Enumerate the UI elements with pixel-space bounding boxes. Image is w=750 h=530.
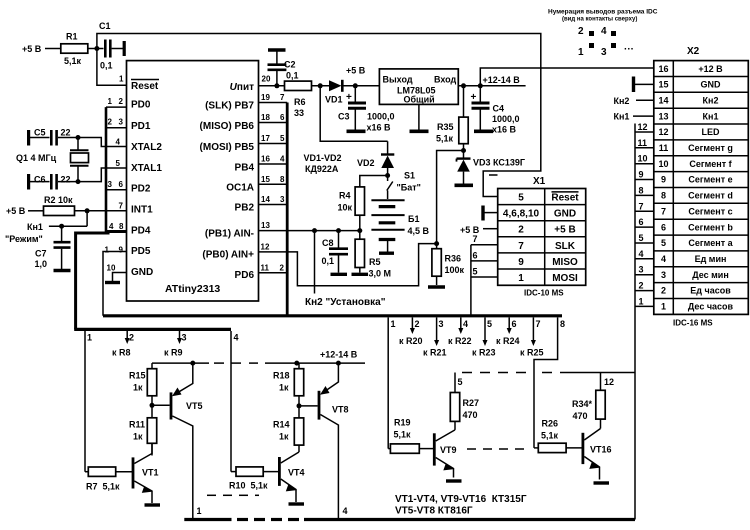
svg-text:4: 4 [109, 222, 114, 231]
svg-text:Reset: Reset [551, 193, 579, 204]
svg-text:X1: X1 [533, 176, 546, 187]
svg-text:1000,0: 1000,0 [367, 112, 395, 122]
svg-text:Reset: Reset [131, 81, 159, 92]
svg-text:10к: 10к [338, 203, 353, 213]
svg-text:"Бат": "Бат" [397, 183, 421, 193]
node XTAL1 junction [76, 179, 81, 184]
svg-text:4: 4 [116, 138, 121, 147]
node +5V (X1 row) [460, 225, 498, 235]
svg-text:R11: R11 [129, 420, 145, 430]
svg-text:C4: C4 [493, 104, 505, 114]
label VD1-VD2 type [304, 153, 342, 174]
ground (C4) [474, 130, 493, 134]
svg-text:+5 В: +5 В [554, 225, 575, 236]
svg-text:4: 4 [601, 26, 607, 37]
svg-text:(MISO) PB6: (MISO) PB6 [200, 121, 255, 132]
node VT8 base junction [297, 403, 302, 408]
node Kn2 junction [312, 228, 317, 233]
svg-text:Вход: Вход [434, 75, 457, 85]
svg-text:12: 12 [638, 122, 648, 132]
svg-text:КД922А: КД922А [305, 164, 339, 174]
resistor R27 [450, 393, 479, 430]
svg-text:(PB0) AIN+: (PB0) AIN+ [202, 250, 254, 261]
svg-text:8: 8 [119, 222, 124, 231]
svg-text:5,1к: 5,1к [541, 431, 559, 441]
svg-text:6: 6 [661, 222, 666, 232]
svg-text:9: 9 [661, 175, 666, 185]
svg-text:22: 22 [61, 128, 71, 138]
resistor R1 [61, 32, 97, 67]
svg-text:Uпит: Uпит [230, 82, 254, 93]
capacitor C6 [29, 174, 78, 190]
node VD3 junction [461, 148, 466, 153]
svg-text:2: 2 [661, 286, 666, 296]
svg-text:12: 12 [604, 377, 614, 387]
wire dashes between VT9 and VT16 cells [467, 448, 524, 450]
svg-text:11: 11 [659, 143, 669, 153]
ground (VT16) [594, 481, 610, 484]
label transistor types [395, 494, 527, 517]
svg-text:1к: 1к [279, 383, 289, 393]
svg-text:Дес часов: Дес часов [688, 302, 734, 312]
regulator LM78L05 [379, 69, 458, 130]
svg-text:5,1к: 5,1к [436, 134, 454, 144]
svg-text:GND: GND [554, 209, 576, 220]
svg-text:PD0: PD0 [131, 100, 151, 111]
svg-text:5: 5 [280, 134, 285, 143]
svg-text:8: 8 [639, 185, 644, 195]
svg-text:R27: R27 [463, 398, 480, 408]
svg-text:1к: 1к [133, 432, 143, 442]
svg-text:VD3 КС139Г: VD3 КС139Г [473, 158, 525, 168]
svg-text:VT16: VT16 [590, 445, 612, 455]
svg-text:9: 9 [119, 246, 124, 255]
svg-text:3: 3 [119, 118, 124, 127]
svg-text:4: 4 [463, 319, 468, 329]
capacitor C7 [35, 226, 71, 269]
svg-text:7: 7 [639, 201, 644, 211]
svg-text:20: 20 [262, 75, 271, 84]
svg-text:9: 9 [639, 170, 644, 180]
svg-text:VT5-VT8 КТ816Г: VT5-VT8 КТ816Г [395, 506, 473, 517]
svg-text:+5 В: +5 В [346, 66, 366, 76]
crystal Q1 [16, 138, 89, 182]
svg-text:C6: C6 [34, 175, 46, 185]
node C7 junction [59, 224, 64, 229]
ground (C8) [331, 273, 348, 276]
label IDC numbering note [548, 9, 658, 59]
svg-text:SLK: SLK [555, 241, 576, 252]
capacitor C5 [29, 128, 78, 146]
diode VD2 [357, 141, 394, 175]
svg-text:GND: GND [131, 267, 153, 278]
svg-text:15: 15 [658, 80, 668, 90]
connector X2 [654, 46, 749, 328]
ground (R36) [428, 285, 445, 289]
transistor VT5 (PNP) [152, 363, 203, 519]
svg-text:7: 7 [536, 319, 541, 329]
svg-text:1: 1 [661, 302, 666, 312]
svg-text:10: 10 [638, 154, 648, 164]
ground (VD3) [455, 184, 474, 188]
node VD1 anode junction [318, 83, 323, 88]
resistor R6 [285, 81, 330, 118]
svg-text:(MOSI) PB5: (MOSI) PB5 [200, 142, 255, 153]
svg-text:2: 2 [280, 264, 285, 273]
wire bundle PB7-PD6 (thick) [286, 103, 289, 316]
svg-text:4: 4 [280, 155, 285, 164]
svg-text:VT4: VT4 [288, 468, 305, 478]
svg-text:13: 13 [658, 111, 668, 121]
svg-text:Сегмент а: Сегмент а [688, 238, 733, 248]
svg-text:1: 1 [391, 319, 396, 329]
svg-text:10: 10 [658, 159, 668, 169]
capacitor C4 (polar) [471, 86, 520, 135]
wire Vhod / +12-14V node [458, 68, 654, 88]
transistor VT9 (NPN) [434, 430, 456, 478]
svg-text:3: 3 [601, 47, 607, 58]
svg-text:470: 470 [573, 411, 588, 421]
svg-text:+12-14 В: +12-14 В [483, 75, 521, 85]
svg-text:R4: R4 [339, 191, 351, 201]
capacitor C3 (polar) [338, 86, 395, 133]
svg-text:7: 7 [280, 93, 285, 102]
svg-text:"Режим": "Режим" [5, 234, 43, 244]
svg-text:5: 5 [458, 377, 463, 387]
wire X2 ladder bus [635, 122, 654, 520]
svg-text:3: 3 [639, 265, 644, 275]
wire digit drop 1 [85, 331, 92, 472]
transistor VT4 (NPN) [279, 452, 304, 502]
svg-text:2: 2 [129, 333, 134, 343]
svg-text:R6: R6 [294, 97, 306, 107]
svg-text:1: 1 [578, 47, 584, 58]
wire X1 SLK/MISO/MOSI to bus [471, 234, 498, 316]
battery B1 [371, 200, 429, 251]
svg-text:17: 17 [261, 134, 270, 143]
switch Kn1 label [5, 222, 43, 244]
svg-text:к R24: к R24 [496, 336, 520, 346]
svg-text:1к: 1к [279, 432, 289, 442]
resistor R14 [273, 418, 304, 452]
svg-text:IDC-10 MS: IDC-10 MS [524, 289, 564, 298]
svg-text:1: 1 [518, 273, 524, 284]
wire digit drop 4 [231, 331, 239, 472]
svg-text:GND: GND [701, 80, 722, 90]
svg-text:MOSI: MOSI [552, 273, 578, 284]
svg-text:5: 5 [639, 233, 644, 243]
svg-text:R36: R36 [445, 254, 462, 264]
svg-text:к R23: к R23 [472, 348, 496, 358]
svg-text:3: 3 [108, 180, 113, 189]
svg-text:(PB1) AIN-: (PB1) AIN- [205, 229, 254, 240]
capacitor C1 [97, 21, 124, 71]
svg-text:2: 2 [108, 118, 113, 127]
svg-text:R7 5,1к: R7 5,1к [86, 482, 120, 492]
svg-text:Кн2 "Установка": Кн2 "Установка" [305, 297, 386, 308]
svg-text:2: 2 [578, 26, 584, 37]
svg-text:Б1: Б1 [408, 214, 419, 224]
svg-text:Нумерация выводов разъема IDC: Нумерация выводов разъема IDC [548, 9, 658, 16]
svg-text:Кн1: Кн1 [703, 111, 719, 121]
svg-text:4,5 В: 4,5 В [408, 226, 430, 236]
resistor R5 [355, 231, 391, 279]
wire LED drop 12 [601, 373, 615, 391]
svg-text:15: 15 [261, 175, 270, 184]
wire LED/segment rail (dashed, right block) [455, 373, 635, 393]
diode VD1 [325, 80, 379, 105]
node S1 junction [385, 173, 390, 178]
svg-text:C8: C8 [322, 238, 334, 248]
svg-text:Кн2: Кн2 [703, 96, 719, 106]
svg-text:5: 5 [518, 193, 524, 204]
ground (VT9) [446, 479, 462, 482]
svg-text:33: 33 [294, 108, 304, 118]
svg-text:Сегмент g: Сегмент g [688, 143, 733, 153]
wire bundle PD0-PD4 (thick) [76, 107, 127, 329]
svg-text:6: 6 [119, 180, 124, 189]
svg-text:Дес мин: Дес мин [692, 270, 729, 280]
svg-text:PD4: PD4 [131, 226, 151, 237]
ground (C2 top bar) [268, 48, 286, 51]
svg-text:PB2: PB2 [235, 203, 255, 214]
svg-text:XTAL2: XTAL2 [131, 142, 162, 153]
svg-text:0,1: 0,1 [322, 256, 335, 266]
svg-text:XTAL1: XTAL1 [131, 163, 162, 174]
node VT5 base junction [150, 403, 155, 408]
svg-text:19: 19 [261, 93, 270, 102]
capacitor C2 [268, 52, 299, 86]
ground (R5) [352, 273, 369, 276]
svg-text:1: 1 [87, 333, 92, 343]
svg-text:7: 7 [518, 241, 524, 252]
svg-text:C5: C5 [34, 128, 46, 138]
svg-text:VD2: VD2 [357, 158, 375, 168]
transistor VT8 (PNP) [299, 363, 349, 519]
svg-text:5: 5 [661, 238, 666, 248]
svg-text:PD6: PD6 [235, 270, 255, 281]
wire PD0 stub [106, 106, 127, 108]
wire +12-14V rail (bottom left block) [152, 350, 365, 366]
wire AIN- (pin 13) [259, 221, 360, 231]
svg-text:+: + [471, 92, 477, 103]
svg-text:1000,0: 1000,0 [492, 114, 520, 124]
svg-text:1: 1 [119, 75, 124, 84]
svg-text:S1: S1 [404, 171, 415, 181]
svg-text:+5 В: +5 В [6, 206, 26, 216]
svg-text:4,6,8,10: 4,6,8,10 [503, 209, 540, 220]
ground (B1) [379, 251, 394, 254]
svg-text:+12-14 В: +12-14 В [320, 350, 358, 360]
wire PD2 stub [106, 189, 127, 191]
wire Kn1 to INT1 [49, 211, 87, 226]
svg-text:PD2: PD2 [131, 184, 151, 195]
zener VD3 [457, 158, 526, 184]
svg-text:VT5: VT5 [186, 401, 203, 411]
resistor R36 [432, 244, 465, 285]
svg-text:2: 2 [518, 225, 524, 236]
resistor R19 [388, 418, 434, 454]
svg-text:1к: 1к [133, 383, 143, 393]
svg-text:11: 11 [638, 138, 648, 148]
svg-text:MISO: MISO [552, 257, 578, 268]
IC right pin labels [200, 82, 255, 281]
svg-text:6: 6 [280, 113, 285, 122]
svg-text:12: 12 [261, 243, 270, 252]
svg-text:11: 11 [261, 264, 270, 273]
svg-text:14: 14 [658, 96, 668, 106]
svg-text:C7: C7 [35, 249, 47, 259]
resistor R11 [129, 418, 157, 456]
svg-text:Q1 4 МГц: Q1 4 МГц [16, 153, 57, 163]
svg-text:12: 12 [658, 127, 668, 137]
wire Reset net: rail along top to X1 [97, 34, 541, 197]
svg-text:к R25: к R25 [520, 348, 544, 358]
op IC U1 ATtiny2313 box [127, 61, 259, 301]
svg-text:10: 10 [107, 264, 116, 273]
svg-text:Кн1: Кн1 [27, 222, 43, 232]
wire common bottom bus (thick) [184, 506, 635, 520]
svg-text:100к: 100к [445, 265, 465, 275]
svg-text:Кн1: Кн1 [614, 112, 630, 122]
svg-text:R15: R15 [129, 371, 146, 381]
transistor VT16 (NPN) [583, 429, 612, 480]
svg-text:Сегмент с: Сегмент с [688, 207, 732, 217]
svg-text:+: + [346, 92, 352, 103]
svg-text:R26: R26 [542, 419, 559, 429]
capacitor C8 [322, 231, 349, 273]
svg-text:Сегмент b: Сегмент b [688, 222, 733, 232]
svg-text:Сегмент f: Сегмент f [689, 159, 732, 169]
svg-text:PD5: PD5 [131, 246, 151, 257]
svg-text:3: 3 [439, 319, 444, 329]
transistor VT1 (NPN) [133, 443, 159, 503]
svg-text:+12 В: +12 В [698, 64, 723, 74]
svg-text:1: 1 [639, 296, 644, 306]
resistor R15 [129, 363, 157, 418]
svg-text:к R8: к R8 [112, 348, 131, 358]
svg-text:4: 4 [343, 506, 348, 516]
svg-text:Общий: Общий [404, 95, 435, 105]
ground (LM78L05) [410, 130, 429, 134]
wire segment drop 8 to R26 [534, 318, 565, 448]
svg-text:2: 2 [415, 319, 420, 329]
svg-text:VT9: VT9 [440, 445, 457, 455]
svg-text:VT1: VT1 [142, 468, 159, 478]
svg-text:R10 5,1к: R10 5,1к [229, 481, 268, 491]
svg-text:к R20: к R20 [399, 336, 423, 346]
svg-text:7: 7 [473, 234, 478, 244]
node Reset junction [94, 46, 99, 51]
svg-text:9: 9 [518, 257, 524, 268]
resistor R26 [534, 419, 583, 453]
ground (X2 GND row) [634, 77, 654, 93]
ground (C3) [347, 130, 366, 134]
svg-text:х16 В: х16 В [492, 125, 517, 135]
svg-text:(вид на контакты сверху): (вид на контакты сверху) [562, 17, 637, 23]
node C2 junction [274, 83, 279, 88]
svg-text:3,0 М: 3,0 М [369, 269, 392, 279]
svg-text:2: 2 [639, 281, 644, 291]
svg-text:VT1-VT4, VT9-VT16 КТ315Г: VT1-VT4, VT9-VT16 КТ315Г [395, 494, 527, 505]
svg-text:3: 3 [280, 195, 285, 204]
resistor R34* [572, 390, 605, 428]
svg-text:(SLK) PB7: (SLK) PB7 [205, 101, 254, 112]
svg-text:6: 6 [512, 319, 517, 329]
svg-text:VT8: VT8 [332, 405, 349, 415]
svg-text:3: 3 [182, 333, 187, 343]
svg-text:16: 16 [658, 64, 668, 74]
svg-text:1: 1 [108, 97, 113, 106]
wire PB stubs [259, 93, 288, 205]
wire to XTAL2 [78, 138, 127, 147]
node R4/R5 junction [357, 228, 362, 233]
wire segment bus (thick, upper-right) [103, 314, 562, 317]
svg-text:R18: R18 [273, 371, 290, 381]
svg-text:5,1к: 5,1к [394, 430, 412, 440]
svg-text:13: 13 [261, 221, 270, 230]
svg-text:18: 18 [261, 113, 270, 122]
ground (C7) [54, 269, 71, 272]
wire to XTAL1 [78, 168, 127, 182]
resistor R35 [436, 86, 468, 158]
node R36 junction [434, 241, 439, 246]
svg-text:х16 В: х16 В [367, 123, 392, 133]
svg-text:7: 7 [661, 207, 666, 217]
svg-text:IDC-16 MS: IDC-16 MS [673, 319, 713, 328]
svg-text:6: 6 [473, 251, 478, 261]
svg-text:5,1к: 5,1к [64, 56, 82, 66]
svg-text:5: 5 [473, 267, 478, 277]
svg-text:C2: C2 [284, 60, 296, 70]
svg-text:2: 2 [119, 97, 124, 106]
svg-text:16: 16 [261, 155, 270, 164]
resistor R2 [44, 195, 127, 216]
svg-text:OC1A: OC1A [226, 183, 254, 194]
switch S1 [387, 171, 421, 200]
svg-text:5: 5 [487, 319, 492, 329]
node C8 junction [336, 228, 341, 233]
svg-text:к R9: к R9 [164, 348, 183, 358]
switch Kn1 stub (X2) [614, 112, 654, 122]
wire Kn2 drop [314, 231, 316, 294]
svg-text:4: 4 [661, 254, 666, 264]
svg-text:6: 6 [639, 217, 644, 227]
svg-text:PD1: PD1 [131, 121, 151, 132]
ground (VT1) [145, 503, 161, 506]
svg-text:R35: R35 [437, 122, 454, 132]
resistor R10 [229, 467, 279, 491]
svg-text:0,1: 0,1 [286, 71, 299, 81]
wire segment drops 1-8 [388, 318, 395, 449]
resistor R7 [85, 467, 133, 492]
svg-text:4: 4 [234, 333, 239, 343]
svg-text:к R22: к R22 [448, 336, 472, 346]
svg-text:PB4: PB4 [235, 163, 255, 174]
switch Kn2 stub (X2) [614, 96, 654, 106]
resistor R18 [273, 363, 304, 418]
wire dashes between VT1 and VT4 cells [207, 494, 259, 496]
svg-text:8: 8 [661, 191, 666, 201]
svg-text:Ед часов: Ед часов [690, 286, 731, 296]
wire VD2 feed from R6/VD1 node [320, 86, 387, 142]
IC left pin labels [131, 80, 162, 279]
wire PD1 stub [106, 127, 127, 129]
svg-text:0,1: 0,1 [100, 61, 113, 71]
wire tick (scan mark near X1 reset corner) [489, 174, 498, 176]
wire digit drop 2 (k R8) [112, 331, 134, 358]
svg-text:R5: R5 [369, 257, 381, 267]
